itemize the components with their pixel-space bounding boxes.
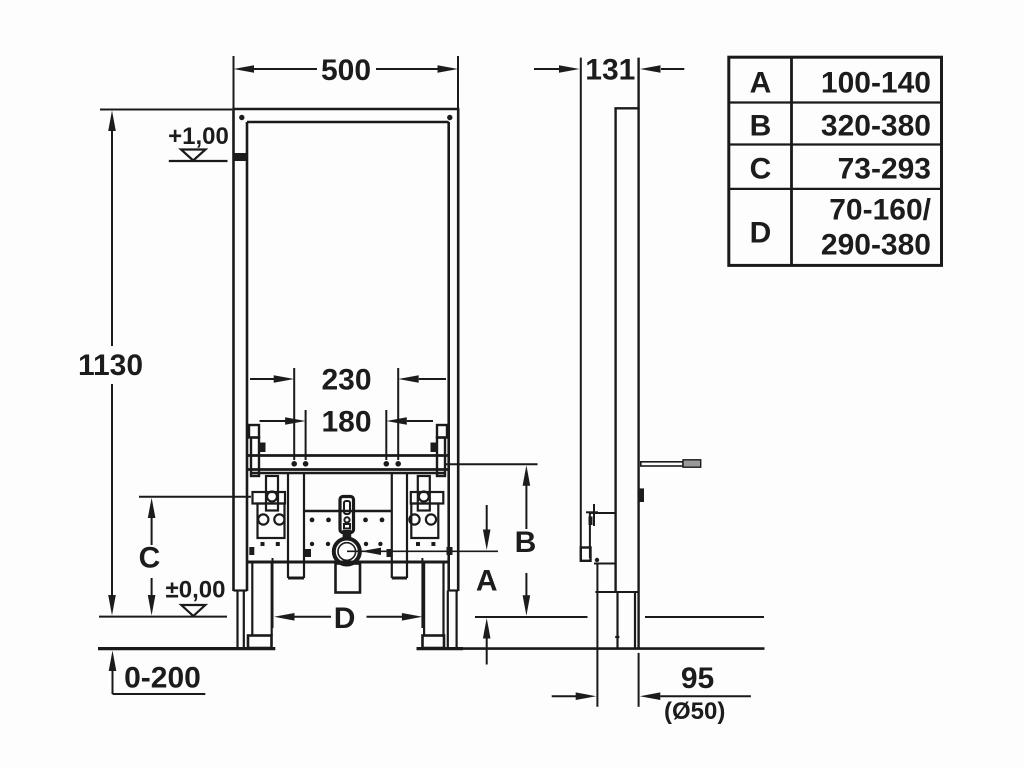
drain circle bbox=[334, 539, 360, 565]
central flush slot bbox=[340, 497, 354, 538]
mounting plate bbox=[247, 473, 449, 562]
side view front face line bbox=[580, 58, 582, 561]
svg-text:B: B bbox=[750, 109, 772, 142]
side view clip bbox=[639, 488, 644, 502]
dimension 0-200 bbox=[109, 651, 206, 695]
dimension A bbox=[476, 505, 498, 665]
right hanger slide bbox=[431, 425, 448, 476]
svg-text:(Ø50): (Ø50) bbox=[664, 698, 725, 725]
crossbar bbox=[247, 456, 449, 470]
svg-text:1130: 1130 bbox=[78, 349, 143, 382]
plate edge marks bbox=[249, 547, 254, 555]
svg-text:320-380: 320-380 bbox=[821, 109, 931, 142]
dimension D bbox=[273, 558, 423, 635]
svg-text:500: 500 bbox=[321, 54, 371, 87]
right bracket assembly bbox=[409, 476, 444, 648]
plate hole dots bbox=[310, 518, 385, 547]
frame legs bbox=[234, 591, 459, 649]
left hanger slide bbox=[249, 425, 266, 476]
svg-text:C: C bbox=[750, 153, 772, 186]
dimension B bbox=[446, 464, 538, 616]
raw floor line bbox=[98, 647, 275, 650]
svg-text:100-140: 100-140 bbox=[821, 67, 931, 100]
left bracket assembly bbox=[248, 476, 285, 648]
svg-text:C: C bbox=[139, 542, 161, 575]
dimension C bbox=[139, 497, 251, 616]
dimension 180 bbox=[260, 406, 434, 461]
svg-text:A: A bbox=[750, 67, 772, 100]
level mark +1,00 bbox=[168, 123, 246, 161]
svg-text:A: A bbox=[476, 565, 498, 598]
crossbar bolt dots bbox=[291, 461, 401, 467]
svg-text:±0,00: ±0,00 bbox=[166, 577, 226, 604]
svg-text:0-200: 0-200 bbox=[124, 662, 201, 695]
svg-text:70-160/: 70-160/ bbox=[829, 194, 931, 227]
svg-text:D: D bbox=[334, 602, 356, 635]
dimension table bbox=[729, 57, 942, 265]
svg-text:+1,00: +1,00 bbox=[168, 123, 229, 150]
svg-text:73-293: 73-293 bbox=[838, 153, 931, 186]
side view tube bbox=[614, 58, 639, 649]
drain box bbox=[336, 564, 361, 593]
dimension 1130 bbox=[78, 110, 232, 616]
svg-text:230: 230 bbox=[321, 364, 371, 397]
hanging column right bbox=[392, 473, 407, 578]
dimension 500 bbox=[234, 54, 459, 109]
finished floor line right bbox=[475, 616, 588, 618]
hanging column left bbox=[288, 473, 304, 578]
side view leg bbox=[615, 592, 635, 649]
svg-text:131: 131 bbox=[585, 54, 635, 87]
svg-text:180: 180 bbox=[321, 406, 371, 439]
side view bracket bbox=[581, 504, 639, 592]
side view water rod bbox=[641, 460, 701, 467]
frame corner screws bbox=[239, 115, 244, 120]
level mark ±0,00 bbox=[166, 577, 226, 617]
svg-text:D: D bbox=[750, 217, 772, 250]
svg-text:290-380: 290-380 bbox=[821, 229, 931, 262]
dimension 230 bbox=[250, 364, 446, 461]
dimension 131 bbox=[534, 54, 684, 87]
finished floor line left bbox=[99, 616, 227, 618]
svg-text:B: B bbox=[515, 526, 537, 559]
dimension 95 bbox=[552, 592, 751, 725]
svg-text:95: 95 bbox=[681, 662, 714, 695]
frame outer bbox=[232, 109, 459, 591]
node A reference line (drain level) bbox=[347, 548, 498, 555]
